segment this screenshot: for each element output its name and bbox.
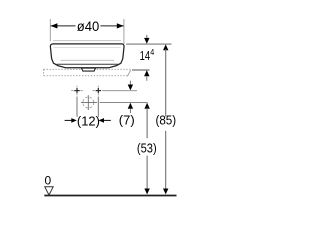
datum triangle [45,187,53,195]
extension line at countertop level (right) [132,69,150,71]
dimension ø40: dimension line [51,25,76,27]
washbasin side view: bowl shoulder line [57,63,119,65]
dimension (12): left arrow [65,119,72,121]
dimension (7): bottom arrow [128,103,133,109]
dimension (12): right extension line [97,97,99,117]
dimension (53): lower line and bottom arrow [146,156,148,191]
countertop (phantom): left end cap [43,69,45,75]
drain hole centerlines [81,102,97,104]
svg-text:14: 14 [140,48,151,63]
dimension ø40: left arrowhead [51,23,58,28]
svg-text:0: 0 [44,173,51,187]
svg-text:(12): (12) [77,113,100,128]
washbasin side view: inner rim line (faint) [54,47,121,49]
dimension (85): lower line and bottom arrow [165,131,167,191]
countertop (phantom): bottom surface [44,75,128,77]
washbasin side view: far rim edge (light) [53,40,121,42]
svg-text:(53): (53) [137,140,157,155]
extension line at tap-hole row level [104,90,137,92]
dimension 14: top arrow [146,35,148,40]
svg-text:4: 4 [150,48,154,57]
dimension ø40: left extension line [49,19,51,41]
washbasin side view: drain foot [82,68,96,71]
extension line at drain-center level [100,102,148,104]
dimension (12): right arrow [99,118,105,123]
dimension (12): left extension line [76,97,78,117]
dimension ø40: right arrowhead [117,23,124,28]
countertop (phantom): right break mark [127,70,130,77]
dimension 14: bottom arrow [144,70,149,76]
svg-text:(7): (7) [119,113,135,128]
svg-text:(85): (85) [155,113,176,128]
svg-text:ø40: ø40 [77,18,100,34]
tap hole cross marker left [71,86,83,96]
tap hole cross marker right [93,86,105,96]
extension line at rim level (right) [126,43,171,45]
drain hole circle [83,97,94,108]
washbasin side view: inner contour (light) [61,59,115,61]
dimension ø40: right extension line [123,19,125,44]
dimension (53): top arrow and line [144,103,149,109]
floor line [44,195,176,197]
countertop (phantom): top surface [44,68,131,70]
washbasin side view: outer silhouette [50,44,124,68]
dimension (85): top arrow and line [163,44,168,50]
dimension (7): top arrow [129,81,131,85]
